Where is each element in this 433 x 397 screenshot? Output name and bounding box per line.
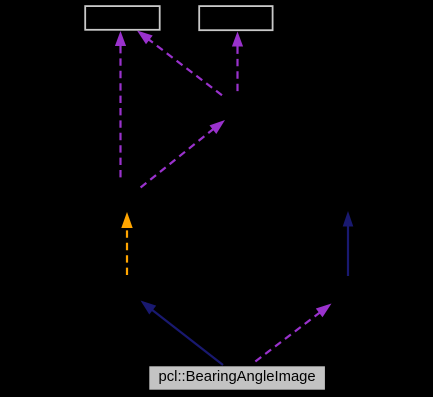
arrow C: purple dashed vertical to top-right box (232, 32, 243, 97)
node box top-left (empty, light border) (85, 6, 160, 30)
arrow H: midnightblue solid vertical on right side (343, 211, 354, 276)
main node box pcl::BearingAngleImage (grey filled) (149, 366, 325, 389)
arrow D: purple dashed diagonal up-right to middle node (140, 120, 225, 188)
node box top-right (empty, light border) (199, 6, 272, 30)
arrow A: purple dashed vertical to top-left box (115, 31, 126, 180)
arrow E: orange dashed vertical (template relation) (121, 212, 132, 275)
arrow G: purple dashed from main node up-right (252, 304, 332, 365)
arrow B: purple dashed diagonal from middle node to top-left box (137, 31, 223, 97)
arrow F: midnightblue solid inheritance from main node up-left (141, 301, 224, 366)
main node label pcl::BearingAngleImage (149, 366, 325, 389)
